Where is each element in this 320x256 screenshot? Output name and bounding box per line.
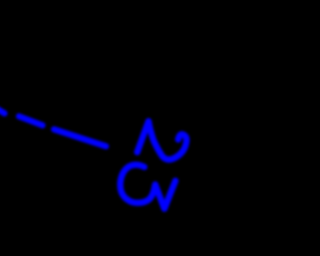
digit 3 (rotated sketch stroke) (120, 165, 175, 209)
dashed line segment 2 (19, 116, 43, 125)
dashed line segment 1 (clipped at left edge) (0, 109, 5, 114)
dashed line segment 3 (54, 129, 106, 146)
digit 2 (rotated sketch stroke) (137, 121, 186, 159)
